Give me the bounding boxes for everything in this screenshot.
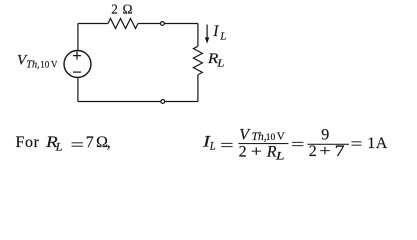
svg-text:L: L: [209, 141, 216, 153]
svg-text:=: =: [220, 137, 234, 154]
svg-text:Th,: Th,: [26, 59, 39, 70]
svg-text:7: 7: [86, 134, 94, 151]
wire top horizontal right segment: [138, 23, 198, 25]
voltage source VTh circle: [64, 51, 91, 78]
node A terminal top (open circle): [161, 22, 165, 26]
svg-text:=: =: [71, 137, 85, 154]
svg-text:10: 10: [266, 133, 276, 143]
svg-text:I: I: [212, 23, 219, 40]
wire left vertical lower: [77, 78, 79, 102]
wire right vertical lower: [197, 75, 199, 102]
svg-text:V: V: [51, 59, 58, 69]
wire right vertical upper: [197, 24, 199, 47]
svg-text:+: +: [251, 143, 262, 160]
svg-text:10: 10: [40, 59, 50, 69]
svg-text:L: L: [216, 58, 225, 69]
svg-text:A: A: [376, 135, 388, 152]
minus sign of source: [73, 71, 81, 73]
current arrow IL head: [205, 37, 209, 43]
svg-text:L: L: [219, 30, 226, 42]
svg-text:Ω: Ω: [122, 2, 132, 17]
svg-text:L: L: [55, 141, 63, 153]
svg-text:,: ,: [107, 133, 111, 152]
svg-text:+: +: [319, 143, 330, 160]
wire bottom horizontal: [78, 101, 198, 103]
svg-text:L: L: [275, 150, 285, 161]
fraction 2 bar: [307, 144, 349, 145]
svg-text:V: V: [239, 126, 251, 143]
svg-text:1: 1: [367, 135, 375, 152]
current arrow IL shaft: [206, 25, 208, 40]
svg-text:2: 2: [309, 143, 317, 160]
svg-text:V: V: [277, 132, 286, 143]
svg-text:Th,: Th,: [252, 131, 267, 143]
wire left vertical upper: [77, 24, 79, 51]
resistor RL zigzag: [193, 46, 202, 75]
node B terminal bottom (open circle): [161, 100, 165, 104]
svg-text:9: 9: [321, 127, 329, 144]
svg-text:2: 2: [111, 2, 118, 17]
svg-text:For: For: [16, 134, 40, 151]
svg-text:7: 7: [335, 143, 345, 160]
plus sign of source: [73, 52, 81, 60]
svg-text:2: 2: [239, 143, 247, 160]
wire top horizontal left segment: [78, 23, 108, 25]
svg-text:=: =: [291, 137, 305, 154]
fraction 1 bar: [238, 143, 288, 144]
svg-text:=: =: [351, 136, 363, 153]
resistor R1 2-ohm zigzag: [108, 19, 138, 29]
